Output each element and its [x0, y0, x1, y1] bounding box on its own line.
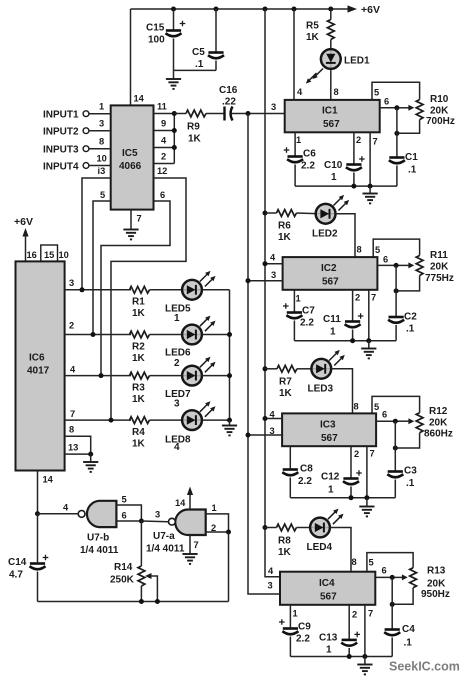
junction wiper bottom [155, 599, 160, 604]
svg-text:INPUT3: INPUT3 [43, 145, 79, 156]
svg-text:7: 7 [194, 540, 199, 550]
wire IC1 pin4 line from rail [293, 9, 295, 100]
svg-text:.1: .1 [408, 165, 417, 176]
junction pin11 tie [172, 111, 177, 116]
svg-text:5: 5 [374, 88, 379, 98]
LED3 [308, 350, 345, 395]
wire IC1 pin7 down [369, 132, 371, 186]
wire IC3 bottom rail [290, 497, 395, 499]
svg-text:.1: .1 [406, 478, 415, 489]
svg-text:C9: C9 [298, 622, 311, 633]
svg-text:860Hz: 860Hz [424, 429, 453, 440]
svg-text:8: 8 [334, 87, 339, 97]
node INPUT2 [43, 119, 111, 138]
junction C11 on rail IC2 [350, 338, 355, 343]
svg-text:INPUT4: INPUT4 [43, 162, 79, 173]
junction pot bottom IC2 [394, 288, 399, 293]
junction pin4 on +6V bus [263, 261, 268, 266]
wire IC1 pin1 down [294, 132, 296, 156]
svg-text:.1: .1 [195, 59, 204, 70]
resistor R8 [265, 524, 310, 558]
wire IC6 pin7 to R4 [65, 419, 131, 421]
svg-text:1: 1 [326, 645, 332, 656]
wire IC3 pin4 [265, 418, 282, 420]
svg-text:3: 3 [268, 581, 273, 591]
ground IC1 row [363, 186, 378, 203]
capacitor C7 [283, 303, 315, 341]
svg-text:3: 3 [174, 399, 180, 410]
resistor R4 [130, 417, 183, 450]
wire IC4 pin1 down [289, 605, 291, 628]
svg-text:14: 14 [175, 498, 186, 508]
svg-text:C12: C12 [321, 472, 340, 483]
wire IC2 pin6 [377, 264, 396, 266]
wire U7-b pin5 [116, 505, 141, 521]
resistor R3 [130, 372, 183, 405]
svg-text:7: 7 [368, 609, 373, 619]
wire +6V top rail [131, 8, 350, 10]
svg-text:1K: 1K [132, 439, 146, 450]
svg-text:1K: 1K [278, 232, 292, 243]
junction pin7 on rail [368, 184, 373, 189]
svg-text:5: 5 [369, 558, 374, 568]
capacitor C5 [192, 9, 224, 70]
capacitor C8 [282, 464, 313, 498]
svg-text:567: 567 [321, 433, 338, 444]
svg-text:IC5: IC5 [122, 148, 138, 159]
svg-text:.1: .1 [404, 638, 413, 649]
wire IC2 pin4 [265, 263, 283, 265]
svg-text:4: 4 [174, 442, 180, 453]
wire IC1 bottom rail [295, 185, 397, 187]
svg-text:15: 15 [44, 250, 54, 260]
svg-text:7: 7 [70, 409, 75, 419]
wire C15/C5 bottoms join [174, 69, 217, 71]
junction pin7 on rail IC3 [364, 495, 369, 500]
svg-text:R12: R12 [429, 406, 448, 417]
junction IC6 pin14 / U7-b output [35, 511, 40, 516]
svg-text:6: 6 [382, 566, 387, 576]
svg-text:5: 5 [374, 402, 379, 412]
counter IC6 4017 [16, 261, 65, 470]
junction +6V bus on rail [263, 7, 268, 12]
svg-text:3: 3 [99, 119, 104, 129]
wire pin6 node down to C3 [394, 421, 396, 471]
svg-text:775Hz: 775Hz [425, 273, 454, 284]
capacitor C15 [146, 9, 185, 70]
svg-text:C7: C7 [302, 306, 315, 317]
wire IC5 pin4 right [154, 147, 175, 149]
junction pot bottom [394, 131, 399, 136]
svg-text:10: 10 [97, 154, 107, 164]
svg-text:1: 1 [293, 609, 298, 619]
op IC1 567 [285, 100, 380, 132]
junction IC6 pin4 / IC5 pin6 [99, 373, 104, 378]
wire IC5 pin5 to IC6 pin2 node [93, 201, 111, 335]
svg-text:4: 4 [297, 87, 303, 97]
wire IC2 pin2 down [352, 290, 354, 321]
junction R7 on +6V bus [263, 366, 268, 371]
svg-text:250K: 250K [110, 575, 135, 586]
svg-text:2: 2 [355, 293, 360, 303]
ground IC4 row [357, 657, 372, 675]
LED8 [165, 401, 216, 453]
op IC3 567 [282, 413, 376, 446]
resistor R1 [130, 286, 183, 319]
junction pin3 on signal bus [246, 278, 251, 283]
wire IC5 pin7 down [130, 210, 132, 229]
potentiometer R12 [395, 406, 453, 448]
svg-text:7: 7 [137, 214, 142, 224]
wire IC5 pin9 right [154, 130, 175, 132]
wire IC3 pin1 down [289, 446, 291, 469]
svg-text:4: 4 [161, 136, 167, 146]
ground IC2 row [361, 341, 376, 359]
svg-text:700Hz: 700Hz [426, 116, 455, 127]
svg-text:8: 8 [354, 402, 359, 412]
junction R8 on +6V bus [263, 525, 268, 530]
junction pin4 on +6V bus IC3 [263, 416, 268, 421]
svg-text:2: 2 [161, 152, 166, 162]
junction pin6/wiper [394, 105, 399, 110]
svg-text:4: 4 [270, 410, 276, 420]
svg-text:R8: R8 [278, 536, 291, 547]
wire pin6 node down to C1 [396, 108, 398, 157]
svg-text:C16: C16 [219, 85, 238, 96]
svg-text:8: 8 [99, 137, 104, 147]
svg-text:C5: C5 [192, 47, 205, 58]
svg-text:4: 4 [268, 566, 274, 576]
svg-text:C10: C10 [324, 160, 343, 171]
pin 7 ground U7-a [182, 535, 198, 564]
svg-text:8: 8 [352, 557, 357, 567]
svg-text:1: 1 [174, 313, 180, 324]
wire IC6 pin4 to R3 [65, 375, 131, 377]
svg-text:950Hz: 950Hz [421, 589, 450, 600]
svg-text:R9: R9 [187, 122, 200, 133]
capacitor C3 [387, 466, 417, 498]
junction pot bottom IC4 [390, 602, 395, 607]
svg-text:16: 16 [27, 250, 37, 260]
svg-text:SeekIC.com: SeekIC.com [389, 660, 460, 674]
svg-text:3: 3 [69, 278, 74, 288]
wire LED6 to cathode line [202, 334, 230, 336]
svg-text:IC6: IC6 [29, 353, 45, 364]
svg-text:2: 2 [354, 449, 359, 459]
capacitor C11 [323, 313, 363, 341]
resistor R5 [306, 9, 334, 49]
svg-text:6: 6 [384, 97, 389, 107]
wire IC3 pin3 [248, 434, 282, 436]
wire LED3 to IC3 pin8 [331, 369, 352, 414]
capacitor C10 [324, 156, 365, 186]
LED1 [306, 49, 370, 84]
svg-text:R7: R7 [279, 377, 292, 388]
junction pin6/wiper IC4 [390, 575, 395, 580]
+6V supply IC6 pin16 [14, 216, 33, 261]
svg-text:2.2: 2.2 [301, 161, 315, 172]
svg-text:20K: 20K [429, 418, 448, 429]
svg-text:4066: 4066 [119, 161, 142, 172]
ground IC6 pins 8/13 [83, 454, 98, 472]
junction IC6 pin7 / IC5 pin12 [109, 418, 114, 423]
svg-text:C1: C1 [405, 152, 418, 163]
wire U7-a pin1 [206, 514, 229, 532]
junction IC6 pin3 / IC5 pin13 [80, 287, 85, 292]
svg-text:R6: R6 [278, 221, 291, 232]
junction R14 bottom [139, 599, 144, 604]
svg-text:2: 2 [352, 610, 357, 620]
svg-text:INPUT2: INPUT2 [43, 127, 79, 138]
svg-text:INPUT1: INPUT1 [43, 110, 79, 121]
svg-text:C6: C6 [303, 149, 316, 160]
svg-text:R13: R13 [427, 566, 446, 577]
wire bottom rail U7 section [38, 601, 229, 603]
svg-text:20K: 20K [430, 262, 449, 273]
wire U7-b pin6 [116, 520, 141, 522]
wire IC2 pin7 down [368, 290, 370, 341]
svg-text:i3: i3 [98, 166, 106, 176]
svg-text:R4: R4 [132, 427, 145, 438]
LED2 [312, 195, 349, 240]
svg-text:LED4: LED4 [307, 542, 333, 553]
svg-text:567: 567 [323, 119, 340, 130]
svg-text:IC4: IC4 [319, 578, 335, 589]
wire U7-a output down to bottom rail [228, 532, 230, 602]
svg-text:5: 5 [100, 190, 105, 200]
svg-text:1K: 1K [279, 388, 293, 399]
LED6 [165, 316, 216, 369]
capacitor C14 [8, 514, 48, 602]
junction C15 on rail [171, 7, 176, 12]
pin 15 box IC6 [41, 245, 58, 261]
svg-text:C8: C8 [300, 464, 313, 475]
wire IC5 pin11 right [154, 113, 175, 115]
node INPUT1 [43, 102, 111, 121]
junction pin7 on rail IC4 [362, 654, 367, 659]
wire LED4 to IC4 pin8 [330, 528, 351, 572]
nand U7-a [146, 510, 206, 555]
potentiometer R11 [396, 250, 454, 291]
capacitor C9 [279, 619, 311, 656]
IC5 4066 [111, 105, 154, 209]
wire IC4 pin7 down [364, 605, 366, 657]
svg-text:R2: R2 [132, 342, 145, 353]
svg-text:7: 7 [370, 449, 375, 459]
junction U7-b inputs / R14 [139, 519, 144, 524]
junction pot bottom IC3 [393, 446, 398, 451]
svg-text:1K: 1K [132, 394, 146, 405]
svg-text:1/4 4011: 1/4 4011 [80, 545, 119, 556]
junction pin6/wiper IC3 [393, 419, 398, 424]
wire IC5 pin12 to R4 row [111, 178, 186, 420]
LED5 [165, 271, 216, 324]
junction pin9 tie [172, 128, 177, 133]
svg-text:2: 2 [174, 358, 180, 369]
wire signal bus (C16 out to IC4 pin3) [248, 114, 280, 595]
wire IC5 pin13 to IC6 pin3 node [82, 178, 111, 290]
svg-text:6: 6 [122, 511, 127, 521]
svg-text:C11: C11 [323, 314, 341, 325]
svg-text:8: 8 [357, 245, 362, 255]
svg-text:1: 1 [296, 135, 301, 145]
capacitor C16 [219, 85, 285, 121]
junction pin3 on signal bus IC3 [246, 433, 251, 438]
LED7 [165, 357, 216, 410]
svg-text:1: 1 [328, 485, 334, 496]
LED4 [307, 509, 344, 553]
svg-text:.22: .22 [222, 97, 236, 108]
svg-text:2: 2 [356, 135, 361, 145]
wire U7-b output to node [38, 513, 78, 515]
svg-text:11: 11 [157, 102, 167, 112]
svg-text:IC2: IC2 [321, 263, 337, 274]
svg-text:8: 8 [69, 425, 74, 435]
svg-text:1K: 1K [132, 353, 146, 364]
wire IC3 pin6 [376, 420, 395, 422]
svg-text:1: 1 [296, 294, 301, 304]
wire node to U7-a input [141, 520, 168, 523]
svg-text:2.2: 2.2 [296, 634, 310, 645]
svg-text:567: 567 [322, 277, 339, 288]
ground below C15 [166, 70, 181, 89]
svg-text:7: 7 [371, 293, 376, 303]
svg-text:U7-a: U7-a [153, 531, 175, 542]
wire IC1 pin5 jog to pot top [372, 82, 420, 100]
wire IC2 pin3 [248, 280, 283, 282]
svg-text:C13: C13 [319, 633, 338, 644]
svg-text:1K: 1K [132, 308, 146, 319]
svg-text:6: 6 [160, 190, 165, 200]
svg-text:2.2: 2.2 [298, 476, 312, 487]
svg-text:10: 10 [59, 250, 69, 260]
svg-text:C15: C15 [146, 23, 165, 34]
wire LED2 to IC2 pin8 [335, 214, 355, 257]
capacitor C12 [321, 470, 362, 498]
wiper R14 [145, 573, 157, 602]
svg-text:C14: C14 [8, 557, 27, 568]
svg-text:567: 567 [320, 592, 337, 603]
wire IC4 pin2 down [348, 605, 350, 640]
capacitor C2 [388, 312, 417, 341]
wire IC6 pin3 to R1 [65, 289, 131, 291]
wire LED cathode line [229, 290, 231, 420]
junction LED6 cathode [227, 332, 232, 337]
svg-text:2.2: 2.2 [300, 318, 314, 329]
svg-text:1: 1 [99, 102, 104, 112]
svg-text:13: 13 [68, 443, 78, 453]
node INPUT3 [43, 137, 111, 156]
svg-text:20K: 20K [430, 106, 449, 117]
svg-text:+6V: +6V [14, 216, 33, 228]
svg-text:3: 3 [271, 102, 276, 112]
svg-text:12: 12 [157, 166, 167, 176]
svg-text:2: 2 [69, 321, 74, 331]
ground IC5 pin7 [123, 230, 138, 240]
wire U7-a pin2 [206, 531, 229, 533]
op IC2 567 [283, 257, 378, 290]
svg-text:4: 4 [70, 365, 76, 375]
capacitor C4 [384, 624, 415, 657]
svg-text:LED3: LED3 [308, 384, 334, 395]
svg-text:100: 100 [148, 35, 165, 46]
junction pins 8/13 [88, 452, 93, 457]
junction pin7 on rail IC2 [366, 338, 371, 343]
wire LED7 to cathode line [202, 375, 230, 377]
wire LED1 to IC1 pin8 [330, 69, 332, 100]
junction U7-a outputs [226, 530, 231, 535]
svg-text:4: 4 [63, 503, 69, 513]
svg-text:1K: 1K [278, 547, 292, 558]
nand U7-b [78, 501, 119, 556]
wire IC2 bottom rail [294, 340, 396, 342]
wire IC2 pin1 down [293, 290, 295, 312]
pin 14 arrow U7-a [175, 487, 193, 510]
junction C12 on rail IC3 [349, 495, 354, 500]
wire +6V bus (rail to IC4 pin4) [265, 9, 280, 577]
potentiometer R10 [397, 94, 455, 133]
junction LED7 cathode [227, 373, 232, 378]
svg-text:3: 3 [155, 510, 160, 520]
junction R5 on rail [328, 7, 333, 12]
svg-text:20K: 20K [427, 579, 446, 590]
svg-text:5: 5 [375, 245, 380, 255]
capacitor C1 [389, 152, 418, 186]
svg-text:1K: 1K [306, 32, 320, 43]
wire pin6 node down to C2 [395, 265, 397, 316]
svg-text:IC1: IC1 [322, 106, 338, 117]
wire IC1 pin2 down [353, 132, 355, 164]
junction pin4 tie [172, 145, 177, 150]
wire IC6 pin13 [65, 453, 91, 455]
wire IC4 pin6 [375, 576, 392, 578]
wire IC5 pin2 right [154, 163, 175, 165]
svg-text:1/4 4011: 1/4 4011 [146, 544, 185, 555]
wire IC5 pin6 to R3 row [101, 201, 170, 376]
svg-text:+6V: +6V [361, 4, 380, 16]
svg-text:LED1: LED1 [344, 56, 370, 67]
junction C10 on rail [351, 184, 356, 189]
svg-text:IC3: IC3 [320, 420, 336, 431]
wire IC3 pin7 down [366, 446, 368, 498]
svg-text:C2: C2 [404, 312, 417, 323]
wire IC1 pin6 [380, 107, 397, 109]
wire pin6 node down to C4 [391, 577, 393, 629]
svg-text:6: 6 [382, 410, 387, 420]
junction R6 on +6V bus [263, 211, 268, 216]
resistor R2 [130, 331, 183, 364]
svg-text:1: 1 [331, 172, 337, 183]
svg-text:5: 5 [122, 495, 127, 505]
resistor R9 [174, 110, 224, 144]
svg-text:LED2: LED2 [312, 229, 338, 240]
svg-text:R10: R10 [430, 94, 449, 105]
svg-text:C4: C4 [402, 624, 415, 635]
wire IC4 bottom rail [290, 656, 392, 658]
svg-text:7: 7 [373, 137, 378, 147]
svg-text:6: 6 [383, 255, 388, 265]
junction LED8 cathode [227, 418, 232, 423]
wire IC4 pin5 jog to pot top [367, 553, 413, 572]
node INPUT4 [43, 154, 111, 173]
wire IC6 pin2 to R2 [65, 334, 131, 336]
wire IC5 pin14 to rail [130, 9, 132, 105]
svg-text:C3: C3 [404, 466, 417, 477]
wire LED5 to cathode line [202, 289, 230, 291]
svg-text:R1: R1 [132, 297, 145, 308]
wire LED8 to cathode line [202, 419, 230, 421]
ground IC3 row [359, 498, 374, 517]
